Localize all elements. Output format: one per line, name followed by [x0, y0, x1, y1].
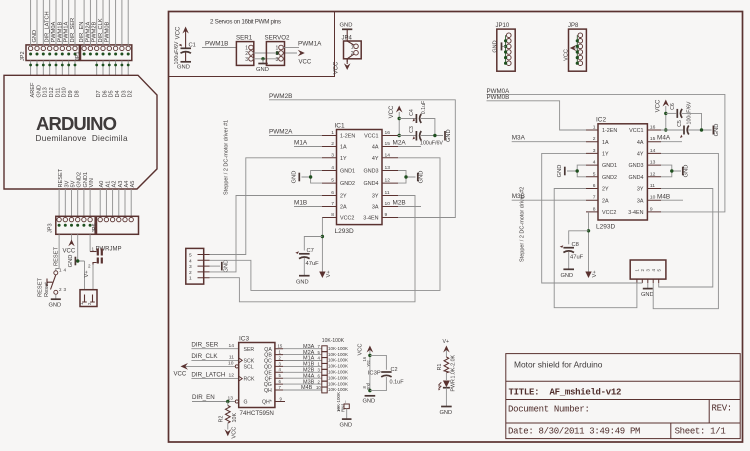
- svg-text:DIR_LATCH: DIR_LATCH: [45, 11, 51, 42]
- ground symbol right of C5: [713, 124, 720, 137]
- svg-text:10K-100K: 10K-100K: [328, 381, 348, 386]
- svg-text:DIR_SER: DIR_SER: [191, 341, 218, 348]
- svg-text:1Y: 1Y: [602, 152, 609, 158]
- svg-text:R2: R2: [218, 416, 224, 423]
- svg-text:10K-100K: 10K-100K: [328, 364, 348, 369]
- capacitor C8 47uF: [560, 242, 584, 269]
- wire SERVO2 pin1 to PWM1A: [283, 47, 299, 49]
- junction dot GND net: [76, 259, 79, 262]
- op IC2 L293D body: [596, 117, 647, 231]
- svg-text:3: 3: [64, 287, 67, 292]
- svg-text:QH: QH: [264, 388, 272, 394]
- svg-text:IC2: IC2: [596, 117, 607, 124]
- svg-text:12: 12: [385, 178, 391, 184]
- IC1 pin numbers right: [385, 130, 391, 218]
- svg-text:D12: D12: [49, 87, 55, 97]
- wire GND net below JP3: [76, 234, 85, 289]
- svg-text:VCC1: VCC1: [629, 128, 643, 134]
- ground for servo connectors: [256, 59, 269, 73]
- svg-text:ARDUINO: ARDUINO: [36, 113, 117, 134]
- wire IC1 pin16 to caps: [398, 119, 416, 136]
- svg-text:GND2: GND2: [340, 181, 355, 187]
- svg-text:GND3: GND3: [629, 163, 644, 169]
- svg-text:A0: A0: [99, 181, 105, 188]
- svg-text:DIR_LATCH: DIR_LATCH: [191, 371, 225, 378]
- svg-text:1: 1: [92, 247, 95, 252]
- svg-text:2 Servos on 16bit PWM pins: 2 Servos on 16bit PWM pins: [210, 19, 281, 26]
- resistor RN1h: [322, 387, 327, 393]
- svg-text:GND: GND: [36, 85, 42, 97]
- svg-text:JP8: JP8: [568, 23, 579, 29]
- svg-text:D4: D4: [115, 90, 121, 97]
- resistor RN1 common element: [344, 404, 349, 409]
- resistor RN1a: [322, 346, 327, 352]
- wire VCC2 net down to V+: [321, 218, 323, 272]
- svg-text:D10: D10: [62, 87, 68, 97]
- svg-text:VCC2: VCC2: [340, 216, 354, 222]
- svg-text:VCC: VCC: [358, 343, 364, 355]
- svg-text:16: 16: [385, 130, 391, 136]
- svg-text:10K-100K: 10K-100K: [328, 375, 348, 380]
- svg-text:M4B: M4B: [657, 193, 670, 200]
- svg-text:DIR_CLK: DIR_CLK: [98, 18, 104, 42]
- header JP3 (power pins): [48, 216, 96, 234]
- svg-text:3: 3: [331, 152, 334, 158]
- svg-text:GND2: GND2: [77, 172, 83, 188]
- svg-text:GND: GND: [256, 67, 269, 73]
- IC3 pin names right: [262, 347, 272, 406]
- svg-text:M2A: M2A: [393, 139, 407, 146]
- IC3 power pins IC3P with VCC: [358, 343, 381, 390]
- svg-text:PWM2A: PWM2A: [85, 21, 91, 42]
- svg-text:GND1: GND1: [602, 163, 617, 169]
- junction dots below JP2: [29, 64, 76, 67]
- svg-text:A5: A5: [130, 181, 136, 188]
- wire RESET net down from JP3: [56, 234, 59, 270]
- VCC arrow below R2: [225, 427, 238, 439]
- svg-text:GND: GND: [340, 23, 353, 29]
- svg-text:3Y: 3Y: [372, 194, 379, 200]
- IC3 right pin numbers: [278, 344, 283, 402]
- wire net M4B: [661, 199, 683, 201]
- capacitor C7 47uF: [295, 248, 319, 276]
- svg-text:7: 7: [593, 195, 596, 201]
- wire net PWM2A: [269, 135, 322, 137]
- net PWM1B wire: [202, 47, 236, 49]
- IC1 right pin stubs: [382, 136, 398, 218]
- svg-text:1Y: 1Y: [340, 156, 347, 162]
- svg-text:GND: GND: [177, 65, 190, 71]
- svg-text:PWM0B: PWM0B: [104, 21, 110, 42]
- wire net M2B: [398, 206, 421, 208]
- svg-text:VCC: VCC: [299, 60, 312, 66]
- IC2 right pin stubs: [647, 130, 661, 212]
- wire net 1Y to X2 pin5: [210, 158, 323, 255]
- svg-text:D9: D9: [68, 90, 74, 97]
- svg-text:M3B: M3B: [512, 193, 525, 200]
- wire net 1Y2 to X4 pin2: [542, 153, 643, 283]
- IC2 pin numbers left: [593, 125, 596, 213]
- svg-text:3: 3: [593, 148, 596, 154]
- ground symbol above JP4: [340, 23, 353, 42]
- svg-text:D11: D11: [55, 88, 61, 98]
- VCC symbol for IC2: [655, 99, 669, 130]
- ground below RN1: [340, 419, 353, 429]
- svg-text:GND: GND: [68, 255, 74, 268]
- svg-text:8: 8: [593, 206, 596, 212]
- svg-text:V+: V+: [443, 339, 450, 345]
- wire net DIR_SER: [191, 348, 238, 350]
- junction dots IC3P: [368, 354, 371, 357]
- svg-text:4Y: 4Y: [637, 152, 644, 158]
- svg-text:vcc: vcc: [366, 360, 371, 366]
- ground for C1: [177, 62, 191, 71]
- svg-text:VCC: VCC: [655, 99, 661, 112]
- svg-text:2: 2: [88, 264, 91, 269]
- resistor RN1c: [322, 358, 327, 364]
- svg-text:RESET: RESET: [38, 278, 44, 297]
- schematic frame border: [169, 12, 743, 443]
- svg-text:3A: 3A: [637, 198, 644, 204]
- svg-text:L293D: L293D: [596, 223, 615, 230]
- title block frame: [506, 354, 740, 439]
- svg-text:2: 2: [351, 51, 354, 57]
- svg-text:Stepper / 2 DC-motor driver #1: Stepper / 2 DC-motor driver #1: [224, 120, 230, 195]
- svg-text:4: 4: [331, 165, 334, 171]
- svg-text:JP3: JP3: [48, 223, 54, 233]
- svg-text:GND: GND: [440, 410, 453, 416]
- svg-text:11: 11: [650, 183, 655, 189]
- svg-text:2: 2: [593, 136, 596, 142]
- svg-text:16: 16: [650, 125, 656, 131]
- svg-text:SERVO2: SERVO2: [265, 35, 291, 42]
- connector JP8: [568, 23, 586, 71]
- wire net PWM0B to IC2 pin1: [487, 101, 587, 130]
- wires JP2 pins up to edge: [31, 0, 75, 46]
- connector X2 stepper 1: [186, 248, 210, 284]
- svg-text:2A: 2A: [602, 198, 609, 204]
- svg-text:PWM2B: PWM2B: [269, 93, 292, 100]
- wire net DIR_CLK: [191, 359, 238, 361]
- svg-text:1-2EN: 1-2EN: [602, 128, 617, 134]
- svg-text:4A: 4A: [372, 145, 379, 151]
- svg-text:2: 2: [189, 270, 192, 276]
- svg-text:GND: GND: [32, 30, 38, 43]
- arduino board outline: [4, 75, 157, 189]
- ground symbol on JP10: [493, 40, 506, 52]
- svg-text:GND: GND: [493, 40, 499, 52]
- capacitor C3 100uF/6V: [409, 126, 444, 147]
- svg-text:0.1uF: 0.1uF: [390, 380, 405, 386]
- svg-text:GND: GND: [446, 129, 452, 142]
- svg-text:DIR_EN: DIR_EN: [192, 394, 215, 401]
- svg-text:3A: 3A: [372, 205, 379, 211]
- wire IC1 GND1 GND2 bracket: [302, 171, 323, 184]
- ground on X4 pin3: [641, 283, 654, 298]
- wire net 4Y2 to X4 pin4: [653, 153, 718, 308]
- svg-text:VCC: VCC: [174, 371, 187, 377]
- op IC1 L293D body: [335, 122, 383, 235]
- svg-text:GND: GND: [363, 398, 376, 404]
- svg-text:3Y: 3Y: [637, 187, 644, 193]
- svg-text:IC3P: IC3P: [368, 370, 381, 376]
- svg-text:14: 14: [385, 152, 391, 158]
- svg-text:G: G: [244, 400, 248, 406]
- svg-text:3: 3: [245, 57, 248, 63]
- capacitor C4 0.1uF: [409, 100, 435, 136]
- servo section box: [169, 12, 335, 77]
- junction dots IC2 vcc: [664, 112, 667, 115]
- svg-text:9: 9: [650, 206, 653, 212]
- svg-text:A2: A2: [112, 181, 118, 188]
- wire net M1A: [294, 146, 322, 148]
- resistor R1 1.0K-2.0K: [437, 354, 456, 380]
- capacitor C1 100uF/6V: [174, 41, 196, 64]
- wire net M4A: [661, 141, 682, 143]
- svg-text:GND: GND: [641, 292, 654, 298]
- resistor RN1g: [322, 381, 327, 387]
- ground below C8: [561, 269, 575, 279]
- svg-text:PWRJMP: PWRJMP: [96, 246, 122, 252]
- svg-text:C5: C5: [677, 120, 683, 127]
- svg-text:GND1: GND1: [83, 172, 89, 188]
- wire net 4Y to X2 pin4: [210, 158, 441, 291]
- svg-text:10K-100K: 10K-100K: [328, 387, 348, 392]
- wire IC3P to C2: [370, 355, 387, 390]
- svg-text:10: 10: [650, 195, 656, 201]
- svg-text:D2: D2: [128, 90, 134, 97]
- svg-text:D7: D7: [96, 90, 102, 97]
- V+ arrow below IC1: [319, 270, 332, 278]
- svg-text:10K: 10K: [232, 413, 238, 423]
- svg-text:Document Number:: Document Number:: [508, 405, 590, 415]
- svg-text:SER1: SER1: [236, 35, 253, 42]
- svg-text:PWM1B: PWM1B: [205, 41, 228, 48]
- svg-text:D6: D6: [102, 90, 108, 97]
- wire IC2 VCC2 down to V+: [588, 212, 590, 272]
- VCC arrow right for servo power: [298, 50, 312, 66]
- pushbutton S1 RESET: [38, 268, 67, 298]
- connector X4 stepper 2: [630, 260, 666, 283]
- wire branch to C8: [569, 231, 589, 245]
- svg-text:A1: A1: [105, 181, 111, 188]
- svg-text:GND: GND: [714, 124, 720, 137]
- svg-text:VCC: VCC: [176, 26, 182, 39]
- wire IC2 GND1 GND2 bracket: [567, 165, 586, 177]
- junction dot IC2 left gnd: [576, 169, 579, 172]
- resistor RN1f: [322, 375, 327, 381]
- svg-text:RESET: RESET: [54, 247, 60, 266]
- svg-text:GND: GND: [561, 273, 574, 279]
- svg-text:Motor shield for Arduino: Motor shield for Arduino: [514, 360, 603, 370]
- svg-text:13: 13: [228, 396, 234, 402]
- svg-text:Date: 8/30/2011 3:49:49 PM: Date: 8/30/2011 3:49:49 PM: [508, 426, 640, 436]
- svg-text:M1A: M1A: [294, 139, 308, 146]
- wires JP1 pins down to board: [97, 61, 129, 76]
- junction dot servo VCC: [276, 51, 279, 54]
- ground below C7: [296, 276, 310, 286]
- svg-text:V+: V+: [592, 270, 598, 278]
- wire net DIR_LATCH: [191, 378, 238, 380]
- svg-text:1: 1: [351, 45, 354, 51]
- svg-text:3V: 3V: [64, 180, 70, 187]
- svg-text:GND: GND: [223, 260, 229, 273]
- resistor RN1b: [322, 352, 327, 358]
- V+ arrow below IC2: [585, 270, 598, 278]
- svg-text:V+: V+: [326, 270, 332, 278]
- wire net 3Y2 to X4 pin5: [659, 189, 713, 288]
- ground below IC3P: [363, 396, 376, 405]
- svg-text:13: 13: [650, 160, 656, 166]
- svg-text:RCK: RCK: [244, 377, 255, 383]
- wire SER1 pin3 to SERVO2 pin3: [253, 58, 279, 60]
- IC3 clock marks: [239, 358, 243, 381]
- svg-text:1: 1: [189, 276, 192, 282]
- svg-text:GND2: GND2: [602, 175, 617, 181]
- svg-text:10: 10: [385, 201, 391, 207]
- svg-text:PWR: PWR: [450, 379, 456, 392]
- svg-text:V+: V+: [84, 270, 90, 278]
- svg-text:2: 2: [331, 141, 334, 147]
- svg-text:11: 11: [385, 190, 390, 196]
- svg-text:74HCT595N: 74HCT595N: [240, 410, 274, 417]
- IC3 right pin stubs: [275, 349, 285, 402]
- svg-text:GND4: GND4: [364, 181, 379, 187]
- svg-text:4: 4: [64, 268, 67, 273]
- svg-text:PWM0A: PWM0A: [51, 21, 57, 42]
- wire SER1 pin2 to SERVO2 pin2 to VCC: [253, 52, 297, 54]
- IC2 pin numbers right: [650, 125, 656, 213]
- svg-text:D3: D3: [121, 90, 127, 97]
- junction dot IC1 right gnd: [404, 175, 407, 178]
- junction dot C3 C4: [433, 134, 436, 137]
- svg-text:VCC: VCC: [334, 61, 340, 74]
- svg-text:8: 8: [331, 212, 334, 218]
- svg-text:M4B: M4B: [301, 385, 313, 391]
- svg-text:13: 13: [385, 165, 391, 171]
- svg-text:PWM1B: PWM1B: [57, 21, 63, 42]
- svg-text:1A: 1A: [602, 140, 609, 146]
- junction dots below JP1: [95, 64, 129, 67]
- svg-text:3-4EN: 3-4EN: [363, 216, 378, 222]
- wire net DIR_EN: [192, 401, 235, 403]
- svg-text:10K-100K: 10K-100K: [328, 352, 348, 357]
- svg-text:GND: GND: [683, 165, 689, 178]
- svg-text:10K-100K: 10K-100K: [328, 370, 348, 375]
- connector JP4: [342, 35, 362, 62]
- svg-text:1: 1: [331, 130, 334, 136]
- wires board to JP3: [59, 189, 90, 217]
- ground symbol IC2 right: [683, 165, 690, 178]
- svg-text:1-2EN: 1-2EN: [340, 134, 355, 140]
- svg-text:GND4: GND4: [629, 175, 644, 181]
- svg-text:Sheet: 1/1: Sheet: 1/1: [675, 426, 726, 436]
- svg-text:15: 15: [385, 141, 391, 147]
- svg-text:Duemilanove Diecimila: Duemilanove Diecimila: [36, 134, 128, 143]
- wire IC1 GND3 GND4 bracket: [398, 171, 416, 184]
- wire net 2Y2 to X4 pin1: [554, 189, 637, 308]
- resistor network pin numbers: [316, 344, 321, 390]
- header JP6 (analog pins): [92, 216, 139, 234]
- svg-text:14: 14: [650, 148, 656, 154]
- header JP2 (arduino digital pins upper row): [20, 45, 79, 61]
- svg-text:DIR_SER: DIR_SER: [70, 18, 76, 43]
- svg-text:VCC: VCC: [563, 49, 569, 61]
- svg-text:11: 11: [229, 355, 234, 361]
- svg-text:12: 12: [229, 373, 235, 379]
- svg-text:2: 2: [59, 287, 62, 292]
- svg-text:3: 3: [276, 57, 279, 63]
- svg-text:TITLE: AF_mshield-v12: TITLE: AF_mshield-v12: [509, 387, 622, 397]
- svg-text:RESET: RESET: [58, 168, 64, 187]
- wires JP2 pins down to board: [31, 61, 75, 76]
- resistor R2 10K: [218, 402, 238, 430]
- V+ arrow above R1: [443, 339, 450, 357]
- svg-text:7: 7: [331, 201, 334, 207]
- svg-text:L293D: L293D: [335, 228, 354, 235]
- svg-text:100uF/6V: 100uF/6V: [174, 41, 180, 64]
- svg-text:15: 15: [278, 344, 283, 349]
- svg-text:GND: GND: [340, 423, 353, 429]
- svg-text:47uF: 47uF: [570, 255, 584, 261]
- svg-text:10: 10: [228, 360, 234, 366]
- svg-text:PWM2A: PWM2A: [269, 129, 293, 136]
- junction dot VCC2 branch: [321, 235, 324, 238]
- svg-text:47uF: 47uF: [306, 261, 320, 267]
- svg-text:6: 6: [593, 183, 596, 189]
- svg-text:C6: C6: [670, 103, 676, 110]
- svg-text:12: 12: [650, 171, 656, 177]
- svg-text:PWM1A: PWM1A: [298, 41, 322, 48]
- svg-text:100uF/6V: 100uF/6V: [686, 101, 692, 124]
- svg-text:PWM2B: PWM2B: [92, 21, 98, 42]
- svg-text:10: 10: [316, 385, 321, 390]
- svg-text:GND: GND: [557, 165, 563, 178]
- junction dot C5 C6: [700, 128, 703, 131]
- svg-text:C3: C3: [409, 126, 415, 133]
- VCC arrow on IC3 SCL pin: [174, 363, 236, 377]
- connector SER1: [236, 35, 254, 66]
- svg-text:VCC: VCC: [231, 427, 237, 439]
- svg-text:4: 4: [189, 258, 192, 264]
- IC3 inversion bubble SCL: [235, 365, 238, 368]
- wire net M2A: [398, 146, 421, 148]
- IC2 pin names: [602, 128, 617, 216]
- capacitor C5: [661, 120, 712, 138]
- svg-text:C1: C1: [189, 43, 196, 49]
- svg-text:gnd: gnd: [366, 382, 371, 390]
- svg-text:GND: GND: [49, 303, 62, 309]
- svg-text:6: 6: [331, 190, 334, 196]
- junction dot DIR_EN R2: [226, 400, 229, 403]
- net labels M3A..M4B at resistor network: [301, 344, 315, 391]
- resistor network value labels: [328, 346, 348, 392]
- svg-text:DIR_EN: DIR_EN: [79, 22, 85, 43]
- junction dot IC2 VCC2 branch: [587, 229, 590, 232]
- svg-text:M3A: M3A: [512, 135, 526, 142]
- svg-text:VCC2: VCC2: [602, 210, 616, 216]
- jumper PWRJMP: [88, 234, 122, 268]
- svg-text:PWM0B: PWM0B: [487, 94, 510, 101]
- connector JP10: [496, 23, 516, 71]
- IC1 pin numbers left: [331, 130, 334, 218]
- svg-text:RN1_: RN1_: [340, 400, 345, 412]
- svg-text:AREF: AREF: [30, 82, 36, 98]
- svg-text:DIR_CLK: DIR_CLK: [191, 353, 218, 360]
- svg-text:A4: A4: [124, 181, 130, 188]
- IC3 pin names left: [244, 347, 255, 406]
- svg-text:10K-100K: 10K-100K: [328, 358, 348, 363]
